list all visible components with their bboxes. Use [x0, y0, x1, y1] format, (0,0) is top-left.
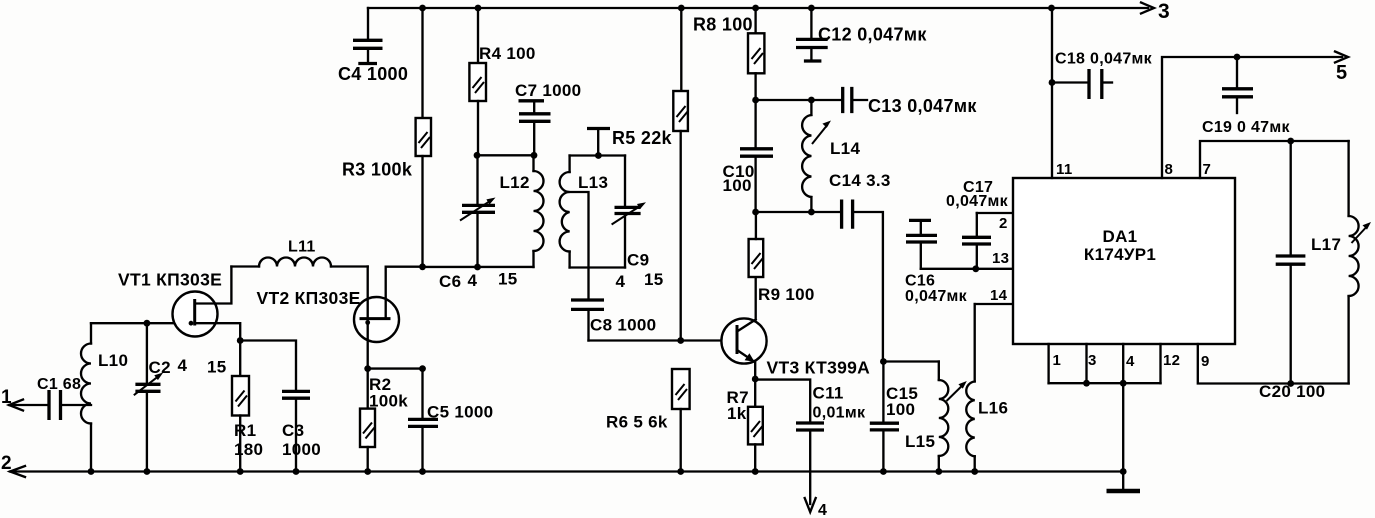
wire: terminal 1 to C1 — [9, 404, 49, 406]
wire: VT2 source bus — [368, 367, 423, 369]
svg-text:C1 68: C1 68 — [37, 376, 81, 393]
C1 value label — [37, 376, 81, 393]
transistor VT1 — [173, 267, 241, 341]
capacitor C6 (trimmer) — [460, 155, 496, 267]
capacitor C17 — [962, 213, 991, 269]
svg-text:L14: L14 — [830, 139, 860, 158]
node: rail dot L16 — [971, 468, 978, 475]
wire: pin 12 down — [1159, 344, 1161, 383]
resistor R5 — [673, 8, 688, 341]
node: C19 top junction — [1234, 54, 1241, 61]
svg-text:1k: 1k — [727, 404, 747, 423]
node: C10-R9 junction — [752, 209, 759, 216]
ground — [1107, 472, 1141, 492]
inductor L10 — [81, 323, 91, 471]
svg-text:13: 13 — [992, 250, 1009, 267]
inductor L16 — [966, 304, 974, 472]
svg-text:C5 1000: C5 1000 — [427, 403, 493, 422]
terminal 4 arrow — [805, 498, 816, 512]
wire: top supply rail (net 3) — [368, 7, 1148, 9]
svg-text:12: 12 — [1163, 352, 1180, 369]
terminal 1 label — [1, 387, 12, 408]
wire: C1 to L10 tap — [61, 404, 92, 406]
R1 labels — [234, 421, 263, 459]
svg-text:15: 15 — [498, 270, 518, 289]
node: rail dot R1 — [237, 468, 244, 475]
R5 label — [612, 128, 673, 148]
L16 label — [978, 399, 1008, 418]
wire: pin 8 to net 5 — [1162, 57, 1342, 178]
node: base junction — [677, 337, 684, 344]
wire: pin 14 line — [975, 303, 1013, 305]
VT1 label — [118, 270, 222, 290]
svg-text:4: 4 — [178, 356, 188, 375]
node: L13 top junction — [595, 152, 602, 159]
capacitor C15 — [870, 362, 899, 472]
inductor L13 tank top edge — [570, 154, 625, 156]
inductor L13 — [560, 156, 570, 268]
svg-text:VT1 КП303Е: VT1 КП303Е — [118, 270, 222, 290]
transistor VT2 — [354, 267, 423, 369]
node: rail dot C2 — [144, 468, 151, 475]
svg-text:C14 3.3: C14 3.3 — [829, 171, 891, 190]
capacitor C5 — [408, 369, 438, 472]
resistor R2 — [360, 369, 375, 472]
svg-text:C19 0 47мк: C19 0 47мк — [1202, 119, 1290, 136]
svg-text:К174УР1: К174УР1 — [1084, 245, 1156, 264]
svg-text:C9: C9 — [627, 251, 649, 270]
C10 labels — [723, 162, 755, 195]
capacitor C7 — [519, 101, 551, 156]
terminal 2 arrow — [10, 466, 25, 477]
node: VT1 source junction — [237, 337, 244, 344]
svg-text:C3: C3 — [282, 421, 304, 440]
wire: pin 11 to top rail — [1051, 8, 1053, 178]
svg-text:C18 0,047мк: C18 0,047мк — [1055, 51, 1153, 68]
wire: pin 2 line — [977, 212, 1013, 214]
svg-text:VT3 КТ399А: VT3 КТ399А — [767, 358, 871, 378]
svg-text:R6 5 6k: R6 5 6k — [606, 413, 668, 432]
node: rail dot C15 — [880, 468, 887, 475]
C11 labels — [813, 384, 866, 422]
node: VT2 drain junction — [419, 263, 426, 270]
capacitor C3 — [282, 391, 310, 471]
pin 1 number — [1053, 352, 1062, 369]
pin 4 number — [1126, 353, 1135, 370]
C8 label — [590, 316, 656, 335]
svg-text:L11: L11 — [288, 239, 316, 256]
node: top rail R5 — [678, 5, 685, 12]
C13 label — [868, 96, 977, 116]
wire: bottom ground rail (net 2) — [10, 470, 1123, 472]
L15/L16 tuning arrow — [947, 381, 967, 401]
terminal 1 arrow — [9, 400, 23, 411]
wire: L10 top / C2 top / VT1 gate line — [91, 322, 195, 324]
C2 value labels — [149, 356, 227, 377]
node: top rail R4 — [475, 5, 482, 12]
L10 label — [98, 351, 128, 370]
node: L14 bottom junction — [808, 209, 815, 216]
node: C18 junction — [1049, 79, 1056, 86]
wire: C8 to VT3 base — [589, 339, 738, 341]
transistor VT3 — [721, 277, 766, 379]
node: pin 3 bus — [1083, 380, 1090, 387]
R9 label — [758, 285, 815, 304]
wire: L13 tank bottom edge — [570, 266, 625, 268]
svg-text:4: 4 — [818, 502, 827, 518]
svg-text:L12: L12 — [500, 173, 530, 192]
wire: emitter to C11 — [755, 380, 810, 423]
capacitor C12 — [796, 8, 828, 61]
svg-text:5: 5 — [1336, 62, 1347, 84]
pin 9 number — [1201, 353, 1210, 370]
C14 label — [829, 171, 891, 190]
C17 labels — [946, 179, 1009, 210]
wire: C10 bottom line to C14 — [756, 211, 842, 213]
node: rail dot C5 — [419, 468, 426, 475]
wire: source junction to C3 — [240, 341, 296, 392]
wire: R4 to C7/L12 — [477, 154, 534, 156]
node: rail dot L10 — [88, 468, 95, 475]
svg-text:1000: 1000 — [282, 440, 321, 459]
L17 label — [1311, 235, 1341, 254]
capacitor C1 — [49, 390, 61, 420]
svg-text:C6: C6 — [439, 272, 461, 291]
node: bus to C5 column — [419, 365, 426, 372]
inductor L15 — [939, 362, 949, 472]
C5 label — [427, 403, 493, 422]
wire: pin 7 to L17 top — [1200, 141, 1349, 178]
VT3 label — [767, 358, 871, 378]
node 5 terminal arrow — [1335, 52, 1348, 63]
svg-text:C12 0,047мк: C12 0,047мк — [818, 25, 927, 45]
wire: R8 bottom line to C13 — [756, 99, 843, 101]
wire: pin 9 to tank bottom — [1198, 344, 1349, 384]
svg-text:0,047мк: 0,047мк — [905, 288, 968, 305]
node: emitter junction — [752, 376, 759, 383]
svg-text:0,047мк: 0,047мк — [946, 193, 1009, 210]
R7 labels — [727, 388, 749, 423]
L11 label — [288, 239, 316, 256]
resistor R3 — [416, 8, 431, 267]
node: top rail pin11 — [1048, 5, 1055, 12]
node: top rail R3 — [419, 5, 426, 12]
pin 3 number — [1088, 352, 1097, 369]
pin 7 number — [1203, 161, 1212, 178]
R4 label — [479, 44, 536, 63]
svg-text:C8 1000: C8 1000 — [590, 316, 656, 335]
R8 label — [693, 15, 753, 35]
svg-text:L13: L13 — [578, 173, 608, 192]
R2 labels — [369, 375, 408, 411]
capacitor C9 (trimmer) — [612, 156, 646, 268]
svg-text:L10: L10 — [98, 351, 128, 370]
op-amp U1 / IC DA1 box — [1013, 178, 1235, 344]
wire: pin 13 line — [921, 268, 1013, 270]
svg-text:100: 100 — [886, 400, 915, 419]
capacitor C20 — [1276, 141, 1306, 384]
svg-text:R3 100k: R3 100k — [342, 160, 413, 180]
svg-text:R8 100: R8 100 — [693, 15, 753, 35]
svg-text:L15: L15 — [905, 432, 935, 451]
node 3 label — [1158, 0, 1170, 23]
C12 label — [818, 25, 927, 45]
pin 12 number — [1163, 352, 1180, 369]
wire: bus to bottom rail — [1122, 383, 1124, 471]
svg-text:180: 180 — [234, 440, 263, 459]
L12 label — [500, 173, 530, 192]
svg-text:C16: C16 — [905, 273, 935, 290]
svg-text:15: 15 — [644, 270, 664, 289]
C9 value labels — [616, 251, 664, 292]
wire: pin 1 down — [1047, 344, 1049, 383]
wire: tank bottom line — [423, 266, 534, 268]
node: C14/C15/L15 junction — [880, 358, 887, 365]
C4 label — [338, 64, 408, 84]
svg-text:3: 3 — [1088, 352, 1097, 369]
node: rail dot L15 — [935, 468, 942, 475]
pin 8 number — [1165, 161, 1174, 178]
resistor R1 — [232, 341, 249, 472]
capacitor C14 — [842, 200, 883, 362]
node: VT2 source junction — [364, 365, 371, 372]
node: rail dot R6 — [677, 468, 684, 475]
inductor L17 — [1349, 141, 1371, 384]
svg-text:1: 1 — [1053, 352, 1062, 369]
wire: pin 4 down — [1122, 344, 1124, 383]
svg-text:4: 4 — [1126, 353, 1135, 370]
L15 label — [905, 432, 935, 451]
R6 label — [606, 413, 668, 432]
C16 labels — [905, 273, 968, 306]
svg-text:3: 3 — [1158, 0, 1170, 23]
node: rail dot C3 — [293, 468, 300, 475]
L13 label — [578, 173, 608, 192]
svg-text:100k: 100k — [369, 392, 408, 411]
capacitor C16 — [906, 220, 937, 268]
svg-text:C4 1000: C4 1000 — [338, 64, 408, 84]
VT2 label — [257, 288, 361, 308]
inductor L14 — [802, 100, 831, 212]
svg-text:C7 1000: C7 1000 — [515, 81, 581, 100]
node: C20 bottom junction — [1287, 380, 1294, 387]
svg-text:4: 4 — [468, 271, 478, 290]
svg-text:R9 100: R9 100 — [758, 285, 815, 304]
C6 value labels — [439, 270, 518, 292]
C20 label — [1259, 382, 1325, 401]
node: R8-C10 junction — [752, 97, 759, 104]
svg-text:R5 22k: R5 22k — [612, 128, 673, 148]
resistor R6 — [672, 369, 690, 472]
wire: junction to L15 — [883, 360, 938, 362]
pin 13 number — [992, 250, 1009, 267]
node: pin 4 bus — [1120, 380, 1127, 387]
C7 label — [515, 81, 581, 100]
node: rail dot R2 — [364, 468, 371, 475]
wire: pin 3 down — [1085, 344, 1087, 383]
svg-text:L16: L16 — [978, 399, 1008, 418]
pin 2 number — [999, 215, 1008, 232]
svg-text:C11: C11 — [813, 384, 844, 403]
svg-text:0,01мк: 0,01мк — [813, 405, 866, 422]
capacitor C19 — [1222, 57, 1253, 113]
node: C20 top junction — [1287, 138, 1294, 145]
wire: ground bus pins 1-3-4-12 — [1049, 382, 1161, 384]
node: C7-L12 junction — [531, 152, 538, 159]
node 3 terminal arrow — [1141, 3, 1154, 14]
node: rail ground junction — [1120, 468, 1127, 475]
pin 11 number — [1056, 161, 1072, 178]
svg-text:2: 2 — [1, 453, 12, 474]
svg-text:C2: C2 — [149, 358, 171, 377]
node: C17 to pin 13 — [972, 265, 979, 272]
svg-text:VT2 КП303Е: VT2 КП303Е — [257, 288, 361, 308]
wire: L13 tap to C8 — [570, 192, 589, 300]
node dot C2 top — [144, 320, 151, 327]
svg-text:R4 100: R4 100 — [479, 44, 536, 63]
svg-text:7: 7 — [1203, 161, 1212, 178]
node: L14 top junction — [808, 97, 815, 104]
C15 labels — [886, 384, 918, 419]
svg-text:11: 11 — [1056, 161, 1072, 178]
node 5 label — [1336, 62, 1347, 84]
L14 label — [830, 139, 860, 158]
svg-text:14: 14 — [990, 287, 1008, 304]
svg-text:100: 100 — [723, 176, 752, 195]
resistor R7 — [748, 379, 763, 472]
terminal 4 label — [818, 502, 827, 518]
svg-text:C13 0,047мк: C13 0,047мк — [868, 96, 977, 116]
R3 label — [342, 160, 413, 180]
resistor R4 — [469, 8, 486, 155]
terminal 2 label — [1, 453, 12, 474]
node: top rail C12 — [808, 5, 815, 12]
capacitor C2 (trimmer) — [134, 323, 163, 471]
C18 label — [1055, 51, 1153, 68]
node: R4-C6 junction — [474, 152, 481, 159]
svg-text:9: 9 — [1201, 353, 1210, 370]
svg-text:15: 15 — [207, 358, 227, 377]
node: rail dot R7 — [752, 468, 759, 475]
capacitor C13 — [843, 87, 867, 113]
C3 labels — [282, 421, 321, 459]
node: C6 bottom junction — [474, 264, 481, 271]
stub above L13 — [587, 129, 610, 156]
svg-text:4: 4 — [616, 272, 626, 291]
svg-text:DA1: DA1 — [1103, 227, 1138, 246]
svg-text:2: 2 — [999, 215, 1008, 232]
DA1 label — [1084, 227, 1156, 264]
capacitor C10 — [740, 100, 773, 212]
svg-text:8: 8 — [1165, 161, 1174, 178]
C19 label — [1202, 119, 1290, 136]
svg-text:L17: L17 — [1311, 235, 1341, 254]
svg-text:R1: R1 — [234, 421, 256, 440]
capacitor C8 — [571, 300, 604, 341]
inductor L12 — [534, 155, 544, 267]
pin 14 number — [990, 287, 1008, 304]
capacitor C11 — [796, 423, 824, 504]
resistor R8 — [748, 8, 764, 100]
node: top rail R8 — [752, 5, 759, 12]
capacitor C4 — [353, 8, 383, 64]
capacitor C18 — [1052, 69, 1112, 99]
resistor R9 — [749, 212, 764, 277]
inductor L11 — [231, 258, 367, 267]
